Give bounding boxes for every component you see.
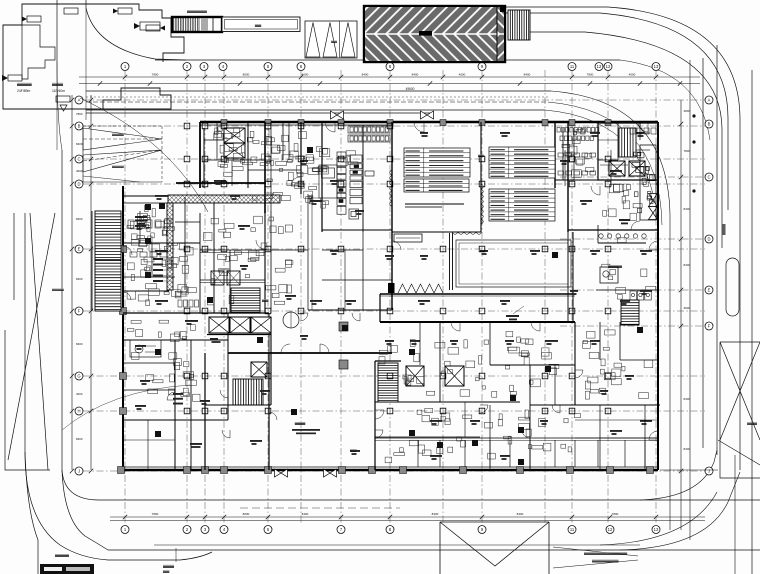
butterfly symbol bbox=[649, 194, 658, 207]
kitchen counters N bbox=[348, 126, 390, 133]
horizontal grid lines bbox=[83, 100, 705, 471]
svg-text:E: E bbox=[708, 288, 711, 293]
schedule table T3 bbox=[489, 147, 555, 178]
building north wall bbox=[200, 121, 658, 123]
canopy triangle structure bbox=[305, 21, 357, 58]
kitchen equipment strip bbox=[319, 152, 374, 219]
grid bubble B bbox=[75, 122, 83, 130]
elevator S-2 bbox=[445, 366, 464, 386]
label stack with leaders bbox=[153, 258, 163, 282]
grid bubble 1 bbox=[121, 526, 129, 534]
grid bubble 2 bbox=[183, 526, 191, 534]
road top inner boundary bbox=[155, 59, 620, 61]
schedule table T4 bbox=[489, 189, 555, 221]
SE block wall y437 bbox=[375, 436, 480, 438]
NE core box bbox=[598, 123, 658, 180]
SW core walls bbox=[204, 353, 206, 470]
exit ramp triangle bbox=[83, 150, 162, 172]
road bottom-left outer curve bbox=[25, 452, 212, 560]
E lobby toilet row bbox=[599, 234, 646, 238]
stepped building outline NW bbox=[3, 25, 171, 109]
grid bubble 4 bbox=[219, 63, 227, 71]
grid bubble 12 bbox=[606, 526, 614, 534]
svg-text:12: 12 bbox=[606, 64, 611, 69]
butterfly symbol bbox=[421, 111, 434, 119]
grid bubble J bbox=[75, 467, 83, 475]
E mid rooms bbox=[599, 322, 601, 360]
stepped building inner steps bbox=[22, 25, 55, 79]
room name texts bbox=[608, 265, 622, 268]
columns along west wall bbox=[120, 246, 127, 415]
reception bench bbox=[394, 234, 422, 242]
upper-left block walls bbox=[203, 128, 205, 188]
bottom dimension line pair bbox=[110, 516, 705, 518]
svg-text:4000: 4000 bbox=[76, 392, 83, 396]
svg-text:8400: 8400 bbox=[362, 73, 369, 77]
svg-text:8400: 8400 bbox=[517, 512, 524, 516]
room text block left bbox=[135, 216, 147, 225]
grid bubble A bbox=[75, 96, 83, 104]
SE walls verticals bbox=[439, 322, 441, 402]
road bottom lines bbox=[62, 470, 760, 500]
small rooms left edge bbox=[123, 362, 175, 364]
svg-text:12: 12 bbox=[597, 64, 602, 69]
turning arc across NW corner bbox=[80, 98, 208, 212]
elevator SW-2 bbox=[230, 317, 250, 333]
svg-text:8000: 8000 bbox=[243, 73, 250, 77]
road right outer vertical bbox=[751, 70, 753, 574]
road segment near SE building corner bbox=[660, 469, 718, 471]
wall x301 upper bbox=[300, 122, 302, 194]
svg-text:8400: 8400 bbox=[76, 277, 83, 281]
butterfly symbol bbox=[275, 469, 288, 477]
svg-text:J: J bbox=[708, 469, 710, 474]
road right verticals bbox=[716, 45, 718, 455]
svg-text:F: F bbox=[708, 324, 711, 329]
SE wall y438 bbox=[375, 437, 658, 439]
NE lobby strip bbox=[562, 128, 564, 180]
road arcs top-right corner bbox=[505, 7, 740, 470]
SW label stack bbox=[173, 393, 183, 405]
right dimension lines bbox=[680, 100, 682, 530]
NE block fixtures bbox=[558, 153, 596, 175]
svg-text:8400: 8400 bbox=[76, 217, 83, 221]
bath room with tub bbox=[130, 340, 161, 357]
road left inner vertical with sweep bbox=[62, 150, 108, 550]
grid bubble F bbox=[75, 307, 83, 315]
grid bubble 3 bbox=[201, 526, 209, 534]
svg-text:7800: 7800 bbox=[76, 112, 83, 116]
svg-text:4000: 4000 bbox=[629, 73, 636, 77]
svg-text:3600: 3600 bbox=[684, 306, 691, 310]
elevator S-1 bbox=[406, 366, 424, 386]
svg-text:F: F bbox=[78, 309, 81, 314]
kitchen corridor double line bbox=[307, 194, 309, 310]
note line under T2 bbox=[405, 203, 464, 205]
svg-text:4000: 4000 bbox=[76, 169, 83, 173]
svg-text:8000: 8000 bbox=[243, 512, 250, 516]
duct shafts pair bbox=[211, 271, 224, 285]
svg-text:11: 11 bbox=[570, 527, 575, 532]
grid bubble 7 bbox=[337, 526, 345, 534]
grid bubble 13 bbox=[652, 63, 660, 71]
grid bubble F bbox=[705, 322, 713, 330]
svg-text:7800: 7800 bbox=[684, 149, 691, 153]
road label W bbox=[52, 289, 64, 292]
svg-text:13: 13 bbox=[654, 64, 659, 69]
room walls NE of SE block bbox=[599, 405, 601, 470]
banquet west wall x269 bbox=[268, 353, 270, 470]
accordion doors on y294 bbox=[398, 284, 443, 293]
grid bubble 12 bbox=[604, 63, 612, 71]
wall y230 hall S bbox=[322, 229, 392, 231]
elevator NE-1 bbox=[609, 161, 625, 176]
garage ramp stair hatch bbox=[172, 17, 222, 32]
svg-text:7800: 7800 bbox=[152, 512, 159, 516]
road markings bottom bbox=[240, 507, 400, 509]
WC room bbox=[600, 267, 618, 283]
upper block extra verticals bbox=[216, 122, 218, 160]
grid bubble 11 bbox=[568, 63, 576, 71]
grid bubble 3 bbox=[200, 63, 208, 71]
columns along south wall bbox=[118, 467, 654, 474]
svg-text:8400: 8400 bbox=[302, 512, 309, 516]
turning arc lower bbox=[62, 385, 190, 430]
grid bubble 8 bbox=[386, 63, 394, 71]
NE block walls bbox=[554, 122, 556, 188]
hall partition x450 bbox=[449, 233, 451, 290]
butterfly symbol bbox=[331, 111, 344, 119]
banquet north wall y353 bbox=[228, 352, 392, 354]
stepped building label boxes bbox=[27, 16, 41, 22]
building south wall bbox=[123, 469, 658, 471]
wall y340 left block bbox=[123, 339, 228, 341]
svg-text:8400: 8400 bbox=[524, 73, 531, 77]
grid bubble 8 bbox=[386, 526, 394, 534]
SE wall y365 bbox=[490, 364, 575, 366]
grid bubble 13 bbox=[652, 526, 660, 534]
wall segment left of hatch band bbox=[123, 195, 168, 197]
svg-text:4800: 4800 bbox=[684, 109, 691, 113]
stair S bbox=[378, 363, 398, 402]
ramp frame bbox=[82, 126, 84, 182]
wall x363 kitchen E bbox=[362, 125, 364, 232]
stair NE bbox=[619, 128, 636, 157]
hall inner platform outline bbox=[456, 240, 571, 287]
schedule table T1 bbox=[404, 148, 470, 177]
svg-text:B: B bbox=[708, 122, 711, 127]
NE equipment rows along north wall bbox=[557, 128, 599, 141]
SE wall y405 right part bbox=[530, 404, 660, 406]
svg-text:13: 13 bbox=[654, 527, 659, 532]
tower 1# hatched footprint bbox=[364, 6, 505, 62]
site triangles west bbox=[30, 213, 48, 470]
roof of building S bbox=[440, 522, 549, 574]
road vertical x25 + bottom-left sweep bbox=[25, 213, 38, 574]
wall x392 great hall W bbox=[391, 122, 393, 310]
vertical grid lines bbox=[125, 70, 656, 524]
svg-text:8400: 8400 bbox=[684, 263, 691, 267]
box with flag left of ramp bbox=[140, 22, 160, 30]
stair SW bbox=[233, 379, 263, 405]
svg-text:8400: 8400 bbox=[76, 142, 83, 146]
left block extra fixtures bbox=[128, 220, 199, 307]
grid bubble C bbox=[705, 173, 713, 181]
svg-text:8400: 8400 bbox=[76, 342, 83, 346]
left dimension line pair bbox=[71, 95, 73, 470]
note leader bottom-right bbox=[553, 547, 638, 568]
revolving door circle bbox=[283, 312, 299, 328]
scallop column wall bbox=[452, 184, 483, 234]
elevator SW-1 bbox=[209, 317, 229, 333]
labels near roads bbox=[55, 554, 69, 557]
west upper wall bbox=[199, 122, 201, 188]
garage entrance label bbox=[187, 10, 207, 13]
SE block wall y402 bbox=[375, 401, 520, 403]
wall x265 mid bbox=[264, 211, 266, 313]
svg-text:H: H bbox=[77, 409, 80, 414]
grid bubble D bbox=[705, 235, 713, 243]
svg-text:8400: 8400 bbox=[412, 73, 419, 77]
inner ring road top lines bbox=[86, 90, 551, 92]
entry ramp triangle bbox=[83, 128, 162, 150]
SE extra partitions bbox=[644, 405, 646, 470]
svg-text:7800: 7800 bbox=[587, 73, 594, 77]
svg-text:4000: 4000 bbox=[459, 73, 466, 77]
right road label bbox=[747, 422, 757, 425]
svg-text:A: A bbox=[708, 98, 711, 103]
building west wall bbox=[122, 186, 124, 470]
hatched wall band horizontal bbox=[168, 195, 280, 203]
road vertical x57 bbox=[56, 0, 58, 62]
svg-text:8400: 8400 bbox=[76, 437, 83, 441]
svg-text:8400: 8400 bbox=[684, 207, 691, 211]
SE block wall y361 bbox=[375, 360, 401, 362]
road right island bbox=[726, 258, 739, 316]
top dimension line pair bbox=[79, 76, 700, 78]
stall row E bbox=[630, 291, 651, 300]
grid bubble 9 bbox=[478, 63, 486, 71]
grid bubble 1 bbox=[121, 63, 129, 71]
mid rooms walls centre bbox=[265, 249, 308, 251]
svg-text:D: D bbox=[707, 237, 710, 242]
butterfly symbol bbox=[324, 469, 337, 477]
stair E bbox=[621, 300, 639, 325]
black block at wall junction bbox=[388, 283, 395, 293]
svg-text:24F/89m: 24F/89m bbox=[17, 89, 31, 93]
stepped building text labels bbox=[17, 83, 32, 86]
elevator NE-2 bbox=[629, 161, 645, 176]
wall x271 parallel bbox=[270, 122, 272, 211]
svg-text:7800: 7800 bbox=[152, 73, 159, 77]
elevator NW-1 bbox=[224, 128, 245, 143]
kitchen bench E block bbox=[640, 145, 656, 220]
elevator SW-3 bbox=[251, 317, 271, 333]
grid bubble 5 bbox=[264, 63, 272, 71]
wall x380 segment bbox=[379, 294, 381, 322]
building east wall bbox=[657, 122, 659, 470]
svg-text:G: G bbox=[77, 374, 80, 379]
butterfly symbol bbox=[649, 207, 658, 220]
grid bubble J bbox=[705, 467, 713, 475]
wall x322 kitchen W bbox=[321, 122, 323, 232]
NE label bbox=[619, 219, 630, 224]
wall x175 SW block bbox=[174, 340, 176, 470]
svg-text:8400: 8400 bbox=[684, 397, 691, 401]
mid wall y322 dark bbox=[380, 321, 575, 323]
svg-text:E: E bbox=[78, 247, 81, 252]
NE corner fixtures bbox=[630, 128, 656, 134]
wall x228 core strip bbox=[227, 313, 229, 420]
NE block extra walls bbox=[564, 150, 566, 186]
grid bubble 5 bbox=[264, 526, 272, 534]
svg-text:C: C bbox=[707, 175, 710, 180]
interior texture rooms/fixtures bbox=[127, 127, 656, 463]
south rooms partitions bbox=[417, 440, 419, 467]
E lobby wall x573 bbox=[572, 232, 574, 322]
SE block west wall x375 bbox=[374, 361, 376, 470]
wall x214 bbox=[213, 203, 215, 313]
road bottom-right corner curves bbox=[640, 450, 717, 500]
grid bubble E bbox=[705, 286, 713, 294]
svg-text:12: 12 bbox=[608, 527, 613, 532]
svg-text:11: 11 bbox=[570, 64, 575, 69]
svg-text:C: C bbox=[77, 157, 80, 162]
elevator NW-2 bbox=[224, 143, 245, 158]
svg-text:4000: 4000 bbox=[302, 73, 309, 77]
filled equipment squares bbox=[145, 147, 643, 465]
grid bubble 11 bbox=[568, 526, 576, 534]
grid bubble E bbox=[75, 245, 83, 253]
interior grid columns bbox=[184, 123, 611, 414]
hall label leaders bbox=[506, 315, 519, 320]
grid bubble B bbox=[705, 120, 713, 128]
svg-text:8400: 8400 bbox=[432, 512, 439, 516]
elevator SW-4 bbox=[251, 362, 267, 377]
grid bubble 12 bbox=[595, 63, 603, 71]
schedule table T2 bbox=[404, 179, 469, 192]
svg-text:J: J bbox=[78, 469, 80, 474]
grid bubble H bbox=[75, 407, 83, 415]
grid bubble 2 bbox=[183, 63, 191, 71]
wall y294 bbox=[380, 293, 575, 295]
grid bubble 6 bbox=[297, 63, 305, 71]
svg-text:7800: 7800 bbox=[612, 512, 619, 516]
NE lower walls bbox=[568, 229, 658, 231]
wall x265 upper bbox=[264, 122, 266, 213]
wall y313 left mid bbox=[123, 312, 269, 314]
road curve top-left corner bbox=[86, 0, 186, 60]
west escape stair bbox=[95, 211, 121, 311]
wall y291 bbox=[123, 290, 169, 292]
wall x480 hall mid bbox=[480, 122, 482, 232]
svg-text:11F/40m: 11F/40m bbox=[52, 89, 65, 93]
grid bubble 4 bbox=[220, 526, 228, 534]
hatched wall band vertical bbox=[167, 203, 173, 290]
sign board black bbox=[40, 564, 94, 574]
wall y183 left block bbox=[176, 182, 266, 184]
wall x568 hall E bbox=[567, 122, 569, 232]
grid bubble A bbox=[705, 96, 713, 104]
road SE vertical x735 bbox=[734, 455, 736, 574]
columns in hall bbox=[339, 322, 348, 369]
grid bubble 9 bbox=[478, 526, 486, 534]
wall x269 upper segment bbox=[268, 313, 270, 353]
svg-text:8400: 8400 bbox=[684, 447, 691, 451]
grid bubble G bbox=[75, 372, 83, 380]
grid bubble D bbox=[75, 180, 83, 188]
louvre box bbox=[508, 10, 530, 40]
grid bubble C bbox=[75, 155, 83, 163]
svg-text:B: B bbox=[78, 124, 81, 129]
svg-text:D: D bbox=[77, 182, 80, 187]
svg-text:49600: 49600 bbox=[406, 87, 415, 91]
tiny text labels interior bbox=[135, 132, 652, 460]
kitchen scallops x392 bbox=[390, 170, 392, 206]
stair core C bbox=[231, 288, 260, 312]
survey marker box with triangle bbox=[56, 96, 70, 102]
columns on north wall bbox=[221, 120, 611, 126]
marker dots right road bbox=[692, 114, 695, 192]
inner ring road NE curves bbox=[551, 91, 670, 530]
corridor arcs mid bbox=[281, 344, 290, 353]
ramp slab bbox=[222, 17, 300, 32]
roof triangles E bbox=[720, 342, 760, 478]
door swings bbox=[325, 122, 335, 132]
